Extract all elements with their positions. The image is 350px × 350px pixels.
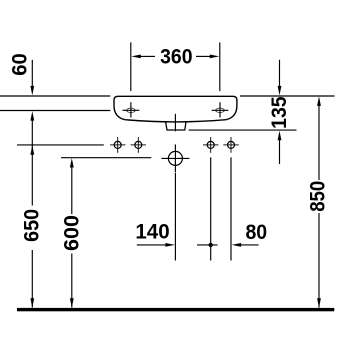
fixing hole left B	[131, 137, 146, 153]
dimension 850 top arrow (up at rim line)	[317, 96, 321, 106]
tap centerline (left)	[0, 110, 110, 112]
fixing hole right A	[203, 137, 218, 153]
svg-text:135: 135	[268, 96, 291, 129]
dimension 60 lower arrow (up) merging into 650 line	[30, 111, 34, 121]
svg-text:850: 850	[307, 181, 330, 212]
spigot bottom extension line right	[189, 129, 297, 131]
basin outline	[114, 96, 237, 122]
svg-text:80: 80	[245, 221, 267, 244]
fixing hole right B	[223, 137, 238, 153]
drain centerline through spigot	[174, 114, 176, 132]
dimension 650 top arrow (up at holes line)	[30, 145, 34, 155]
svg-text:60: 60	[9, 53, 32, 76]
svg-text:140: 140	[135, 221, 169, 244]
svg-text:360: 360	[160, 46, 192, 69]
drain circle	[168, 151, 182, 165]
svg-text:650: 650	[21, 209, 44, 242]
extension line at drain level	[61, 157, 151, 159]
dimension 135 lower arrow (up)	[278, 131, 282, 141]
drain cross	[161, 157, 189, 159]
dimension 600 top arrow (up at drain line)	[70, 158, 74, 168]
dimension 60 upper arrow (down)	[31, 60, 33, 87]
floor line	[17, 308, 334, 311]
hole centerline x=210.7	[210, 157, 212, 260]
dimension 850 bottom arrow (down at floor)	[318, 213, 320, 308]
dimension 80 arrow (left at hole line)	[232, 243, 242, 247]
tap hole cross left	[123, 102, 140, 117]
dimension 360 extension line right	[219, 42, 221, 91]
dimension 650 lower segment with floor arrow	[31, 250, 33, 308]
dimension 360 arrow right	[210, 55, 220, 59]
extension line at fixing holes level	[17, 144, 104, 146]
tap hole cross right	[212, 102, 229, 117]
drain spigot trapezoid	[166, 122, 186, 130]
dimension 140 arrow (right at drain centerline)	[137, 244, 167, 246]
hole centerline x=231	[230, 157, 232, 260]
fixing hole left A	[110, 137, 125, 153]
dimension 360 extension line left	[130, 42, 132, 91]
svg-text:600: 600	[60, 215, 83, 251]
drain centerline below	[174, 173, 176, 261]
dimension 135 upper arrow (down)	[279, 60, 281, 87]
dimension 360 arrow left	[131, 55, 141, 59]
rim extension line right	[240, 95, 335, 97]
dimension 600 bottom arrow (down at floor)	[71, 254, 73, 308]
wall line (rim level, left)	[0, 95, 110, 97]
dimension origin dot with bar	[197, 244, 218, 246]
